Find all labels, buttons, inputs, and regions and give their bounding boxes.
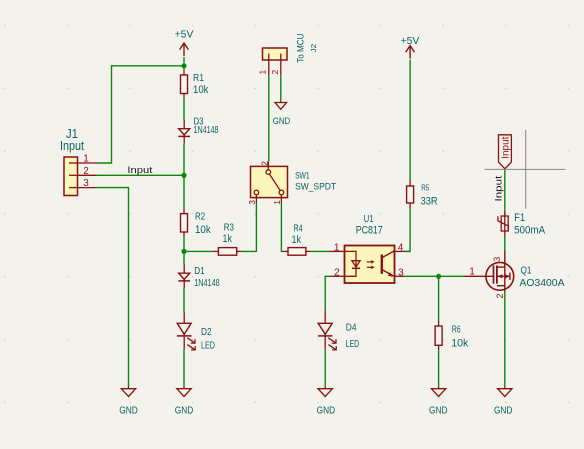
svg-text:Input: Input	[500, 137, 512, 159]
svg-text:10k: 10k	[195, 224, 211, 236]
svg-text:2: 2	[270, 70, 280, 75]
svg-text:1N4148: 1N4148	[194, 277, 220, 289]
svg-text:R4: R4	[293, 223, 302, 234]
svg-text:R6: R6	[452, 325, 461, 336]
svg-text:AO3400A: AO3400A	[520, 277, 565, 289]
wire D2 to GND	[183, 349, 185, 386]
diode D1 1N4148	[178, 265, 219, 290]
LED D4	[318, 311, 359, 350]
wire R1 to D3	[183, 98, 185, 120]
wire D4 to GND	[324, 349, 326, 386]
wire U1 pin3 to node	[404, 275, 439, 277]
svg-text:R3: R3	[224, 223, 235, 234]
optocoupler U1 PC817	[330, 213, 404, 283]
wire D3 to Input row	[183, 144, 185, 176]
svg-text:+5V: +5V	[175, 29, 194, 41]
svg-text:Q1: Q1	[521, 265, 532, 277]
wire J1 pin2 to Input net	[97, 174, 185, 176]
node Input junction	[181, 173, 186, 178]
svg-text:R2: R2	[195, 211, 205, 223]
wire R3 to SW1 pin3	[242, 203, 257, 252]
wire U1 pin4 corner	[404, 250, 410, 252]
svg-text:2: 2	[334, 268, 340, 279]
svg-text:R5: R5	[421, 184, 429, 193]
wire Input label to F1	[504, 169, 506, 211]
resistor R1	[181, 71, 209, 99]
ground GND (J1 branch)	[119, 387, 138, 417]
svg-text:3: 3	[83, 178, 89, 189]
svg-text:F1: F1	[514, 212, 525, 224]
svg-text:LED: LED	[346, 338, 360, 350]
net label Input (vertical)	[494, 175, 505, 201]
LED D2	[177, 313, 215, 352]
resistor R2	[181, 209, 212, 237]
wire Q1 source to GND	[504, 292, 506, 387]
wire D1 to D2	[183, 288, 185, 313]
wire node to D1	[183, 251, 185, 264]
transistor Q1 AO3400A	[464, 251, 565, 299]
node junction +5V / J1 pin1	[181, 63, 186, 68]
resistor R4 1k	[283, 223, 311, 255]
svg-text:LED: LED	[201, 340, 215, 352]
wire node to Q1 gate	[439, 275, 464, 277]
svg-text:1k: 1k	[223, 233, 233, 245]
resistor R3 1k	[213, 223, 241, 256]
wire U1 pin2 to D4	[325, 276, 330, 312]
svg-text:To MCU: To MCU	[296, 33, 307, 62]
svg-text:4: 4	[398, 242, 404, 253]
svg-text:J2: J2	[309, 44, 318, 53]
svg-text:SW_SPDT: SW_SPDT	[295, 181, 336, 192]
svg-text:GND: GND	[429, 404, 448, 416]
svg-text:D1: D1	[194, 265, 205, 277]
svg-text:D2: D2	[201, 326, 212, 338]
wire J2 pin1 to SW1 pin2	[268, 75, 270, 161]
power +5V (left rail)	[175, 29, 194, 56]
ground GND (Q1)	[494, 387, 513, 417]
svg-text:Input: Input	[494, 175, 505, 201]
wire +5V to R5	[409, 60, 411, 181]
ground GND (D2)	[175, 387, 194, 417]
svg-text:33R: 33R	[421, 196, 438, 208]
svg-text:1N4148: 1N4148	[194, 124, 219, 136]
wire F1 to Q1 drain	[504, 236, 506, 251]
ground GND (J2)	[273, 100, 291, 127]
wire R4 to U1 pin1	[311, 250, 330, 252]
connector J1	[60, 126, 97, 196]
switch SW1 SW_SPDT	[247, 161, 336, 205]
node R2/R3 junction	[181, 249, 186, 254]
svg-text:Input: Input	[127, 165, 153, 175]
ground GND (D4)	[317, 387, 336, 417]
resistor R5 33R	[407, 181, 438, 208]
wire +5V to R1 with branch corner	[183, 57, 185, 71]
wire R5 to U1 pin4	[404, 208, 410, 251]
svg-text:Input: Input	[60, 139, 84, 153]
svg-text:10k: 10k	[193, 84, 209, 96]
svg-text:1: 1	[272, 200, 282, 205]
svg-text:U1: U1	[364, 213, 374, 225]
svg-text:3: 3	[492, 257, 502, 262]
net label Input	[127, 165, 153, 175]
svg-text:3: 3	[398, 268, 404, 279]
svg-text:GND: GND	[175, 404, 194, 416]
svg-text:GND: GND	[317, 404, 336, 416]
svg-text:GND: GND	[494, 404, 513, 416]
svg-text:GND: GND	[273, 116, 291, 127]
wire node to R3	[184, 250, 213, 252]
svg-text:1: 1	[257, 70, 267, 75]
svg-text:2: 2	[259, 161, 269, 166]
svg-text:+5V: +5V	[401, 35, 420, 47]
power +5V (second)	[401, 35, 420, 58]
node gate junction	[436, 274, 441, 279]
svg-text:500mA: 500mA	[514, 225, 546, 237]
wire SW1 pin1 to R4	[281, 203, 283, 252]
wire node to R6	[438, 276, 440, 321]
svg-text:1k: 1k	[292, 234, 302, 246]
wire J1 pin1 riser	[97, 66, 185, 163]
svg-text:1: 1	[469, 267, 475, 278]
wire R6 to GND	[438, 350, 440, 386]
wire R2 to node	[183, 237, 185, 251]
diode D3 1N4148	[178, 115, 218, 143]
svg-text:SW1: SW1	[295, 170, 310, 181]
cursor crosshair	[485, 130, 566, 209]
svg-text:PC817: PC817	[356, 225, 383, 237]
resistor R6 10k	[435, 321, 469, 350]
ground GND (R6)	[429, 387, 448, 417]
svg-text:1: 1	[334, 242, 340, 253]
wire J1 pin3 to GND rail	[97, 188, 129, 387]
wire J2 pin2 to GND	[280, 75, 282, 100]
svg-text:1: 1	[83, 154, 89, 165]
svg-text:10k: 10k	[451, 337, 468, 349]
fuse F1 500mA	[498, 211, 546, 237]
svg-text:GND: GND	[119, 404, 138, 416]
svg-text:R1: R1	[193, 72, 204, 84]
wire Input row to R2	[183, 175, 185, 208]
svg-text:D4: D4	[346, 321, 357, 333]
connector J2 To MCU	[257, 33, 318, 75]
svg-text:2: 2	[495, 293, 505, 298]
global label Input	[499, 135, 512, 169]
svg-text:2: 2	[83, 166, 89, 177]
svg-text:3: 3	[247, 200, 257, 205]
